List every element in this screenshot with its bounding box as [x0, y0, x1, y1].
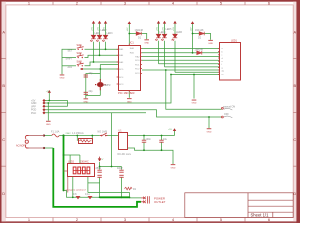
svg-text:400V: 400V — [117, 167, 123, 170]
svg-text:LED2: LED2 — [68, 160, 75, 163]
svg-text:RC1: RC1 — [135, 64, 140, 66]
svg-text:LED5: LED5 — [166, 28, 173, 31]
svg-text:GND: GND — [127, 101, 132, 103]
svg-text:GND: GND — [60, 78, 65, 80]
svg-text:A: A — [2, 30, 5, 35]
svg-text:RC3: RC3 — [135, 73, 140, 75]
svg-text:SW3: SW3 — [77, 60, 83, 63]
svg-text:22p: 22p — [89, 90, 94, 93]
svg-text:1,4 150mA: 1,4 150mA — [72, 132, 84, 135]
svg-text:+5V: +5V — [190, 27, 192, 31]
svg-text:GND: GND — [83, 102, 88, 104]
svg-text:DC-DC conv: DC-DC conv — [118, 153, 132, 156]
svg-text:manual ON: manual ON — [223, 106, 235, 109]
svg-text:B: B — [2, 83, 5, 88]
svg-text:SW1: SW1 — [77, 44, 83, 47]
svg-text:2: 2 — [76, 1, 78, 6]
svg-text:GND: GND — [192, 103, 197, 105]
svg-text:+5V: +5V — [168, 129, 172, 131]
svg-text:230VAC: 230VAC — [80, 160, 89, 163]
svg-text:GND: GND — [46, 124, 51, 126]
svg-text:GND: GND — [144, 43, 149, 45]
svg-text:D: D — [2, 191, 5, 196]
svg-text:C: C — [2, 137, 5, 142]
svg-text:ADJ: ADJ — [68, 66, 73, 69]
svg-text:3: 3 — [124, 217, 126, 222]
svg-text:+5V: +5V — [173, 27, 175, 31]
svg-text:+5V: +5V — [91, 27, 93, 31]
svg-text:NO 1A/B: NO 1A/B — [98, 131, 108, 134]
svg-text:A: A — [293, 30, 296, 35]
svg-text:SW2: SW2 — [77, 52, 83, 55]
svg-text:B: B — [293, 83, 296, 88]
svg-text:RC5: RC5 — [119, 69, 124, 71]
svg-text:C: C — [293, 137, 296, 142]
svg-text:RC0: RC0 — [135, 60, 140, 62]
svg-text:100n: 100n — [146, 138, 152, 141]
svg-text:2: 2 — [76, 217, 78, 222]
svg-text:D: D — [293, 191, 296, 196]
svg-text:1N4148: 1N4148 — [195, 29, 204, 32]
svg-text:+5V: +5V — [97, 27, 99, 31]
svg-text:SHIFT: SHIFT — [66, 58, 73, 61]
svg-text:230V: 230V — [66, 133, 72, 135]
svg-text:1N4148: 1N4148 — [135, 29, 144, 32]
svg-text:+5V: +5V — [103, 27, 105, 31]
svg-text:16MHz: 16MHz — [103, 84, 111, 87]
svg-text:GND: GND — [208, 43, 213, 45]
svg-text:SET: SET — [68, 49, 73, 52]
svg-text:PGC: PGC — [31, 112, 36, 115]
svg-text:GND: GND — [207, 132, 212, 134]
svg-text:GND: GND — [171, 167, 176, 169]
svg-text:IC1: IC1 — [130, 42, 134, 45]
svg-text:RC4: RC4 — [119, 77, 124, 79]
svg-text:+5V: +5V — [156, 27, 158, 31]
svg-text:10u: 10u — [163, 138, 168, 141]
svg-text:LED1: LED1 — [95, 32, 102, 35]
svg-text:6: 6 — [268, 1, 270, 6]
svg-text:OUTLET: OUTLET — [154, 200, 166, 204]
svg-text:RC2: RC2 — [135, 68, 140, 70]
svg-text:3: 3 — [124, 1, 126, 6]
svg-text:F1 1,6A: F1 1,6A — [51, 131, 60, 134]
svg-text:22p: 22p — [89, 72, 94, 75]
svg-text:250V: 250V — [96, 167, 102, 170]
svg-text:1: 1 — [28, 1, 30, 6]
svg-text:AC/ADP: AC/ADP — [16, 145, 25, 148]
svg-text:Sheet 1/1: Sheet 1/1 — [251, 212, 270, 217]
svg-text:PIC 16F1823: PIC 16F1823 — [118, 91, 135, 95]
svg-text:47n: 47n — [73, 193, 78, 196]
svg-text:0,1u: 0,1u — [85, 193, 90, 196]
svg-text:LED6: LED6 — [176, 31, 183, 34]
svg-text:LED1: LED1 — [231, 40, 238, 43]
svg-text:+5V: +5V — [162, 27, 164, 31]
svg-text:→ change to autotransf: → change to autotransf — [63, 188, 86, 191]
svg-text:1: 1 — [28, 217, 30, 222]
svg-text:5: 5 — [220, 1, 222, 6]
svg-text:RC3: RC3 — [119, 84, 124, 86]
svg-text:LED3: LED3 — [107, 32, 114, 35]
svg-text:1N4148: 1N4148 — [195, 48, 204, 51]
svg-text:+5V: +5V — [127, 27, 129, 31]
svg-text:OFF: OFF — [224, 113, 229, 116]
svg-text:+5V: +5V — [46, 91, 50, 93]
